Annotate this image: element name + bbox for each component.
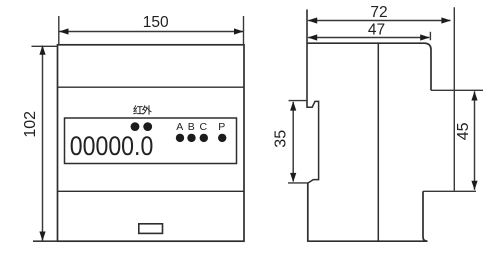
- svg-text:47: 47: [368, 22, 385, 39]
- dimension 102: bottom arrowhead: [39, 232, 45, 242]
- infrared LED dot 2: [143, 122, 152, 131]
- front view upper divider: [58, 86, 245, 88]
- front button rectangle: [139, 224, 163, 234]
- display panel: [65, 118, 237, 164]
- side view lower left edge: [307, 183, 309, 241]
- dimension 47: right arrowhead: [420, 34, 430, 40]
- front view lower divider: [58, 190, 245, 192]
- dimension 35: dimension line: [292, 102, 294, 181]
- svg-text:35: 35: [273, 130, 290, 148]
- dimension 150: dimension line: [60, 31, 244, 33]
- dimension 102: dimension line: [42, 46, 44, 241]
- side view upper right edge: [430, 50, 432, 91]
- dimension 72: right arrowhead: [441, 17, 451, 23]
- side view top step line: [431, 89, 483, 91]
- dimension 35: bottom extension line: [288, 182, 308, 184]
- label hongwai (infrared): [133, 105, 152, 115]
- side view lower right edge with rounded bottom corner: [423, 191, 428, 241]
- dimension 150: left arrowhead: [59, 28, 69, 34]
- svg-text:45: 45: [455, 122, 472, 140]
- phase LED dot C: [200, 134, 208, 142]
- dimension 150: extension line right: [243, 16, 245, 45]
- svg-text:72: 72: [370, 4, 387, 21]
- dimension 47: dimension line: [308, 37, 429, 39]
- side view center divider line: [377, 43, 379, 241]
- svg-text:A: A: [176, 121, 183, 133]
- svg-text:P: P: [218, 121, 225, 133]
- dimension 102: top arrowhead: [39, 45, 45, 55]
- side view left edge / 72-47 extension: [306, 9, 308, 108]
- dimension 102: top extension line: [32, 45, 58, 47]
- side view rear edge / 72 extension line: [453, 7, 455, 191]
- dimension 47: left arrowhead: [308, 34, 318, 40]
- side view bottom edge: [307, 240, 427, 242]
- svg-text:102: 102: [22, 111, 39, 138]
- dimension 35: bottom arrowhead: [290, 173, 296, 182]
- svg-text:00000.0: 00000.0: [70, 131, 154, 161]
- svg-text:B: B: [188, 121, 195, 133]
- dimension 150: right arrowhead: [234, 28, 244, 34]
- side view top edge with rounded right corner: [307, 43, 431, 49]
- side view bottom step line: [423, 190, 476, 192]
- front view body outline: [58, 45, 245, 241]
- dimension 45: dimension line: [474, 91, 476, 190]
- dimension 35: top arrowhead: [290, 101, 296, 110]
- svg-text:C: C: [200, 121, 208, 133]
- dimension 45: top arrowhead: [471, 91, 477, 100]
- phase LED dot P: [218, 134, 226, 142]
- dimension 35: top extension line: [289, 100, 308, 102]
- phase LED dot A: [176, 134, 184, 142]
- infrared LED dot 1: [131, 122, 140, 131]
- phase LED dot B: [187, 134, 195, 142]
- dimension 150: extension line left: [58, 16, 60, 45]
- svg-text:150: 150: [143, 14, 169, 31]
- dimension 102: bottom extension line: [33, 240, 58, 242]
- dimension 72: left arrowhead: [308, 17, 318, 23]
- dimension 47: right extension tick: [429, 32, 431, 40]
- dimension 72: dimension line: [308, 20, 450, 22]
- dimension 45: bottom arrowhead: [471, 181, 477, 190]
- side view DIN notch lower profile: [307, 101, 319, 183]
